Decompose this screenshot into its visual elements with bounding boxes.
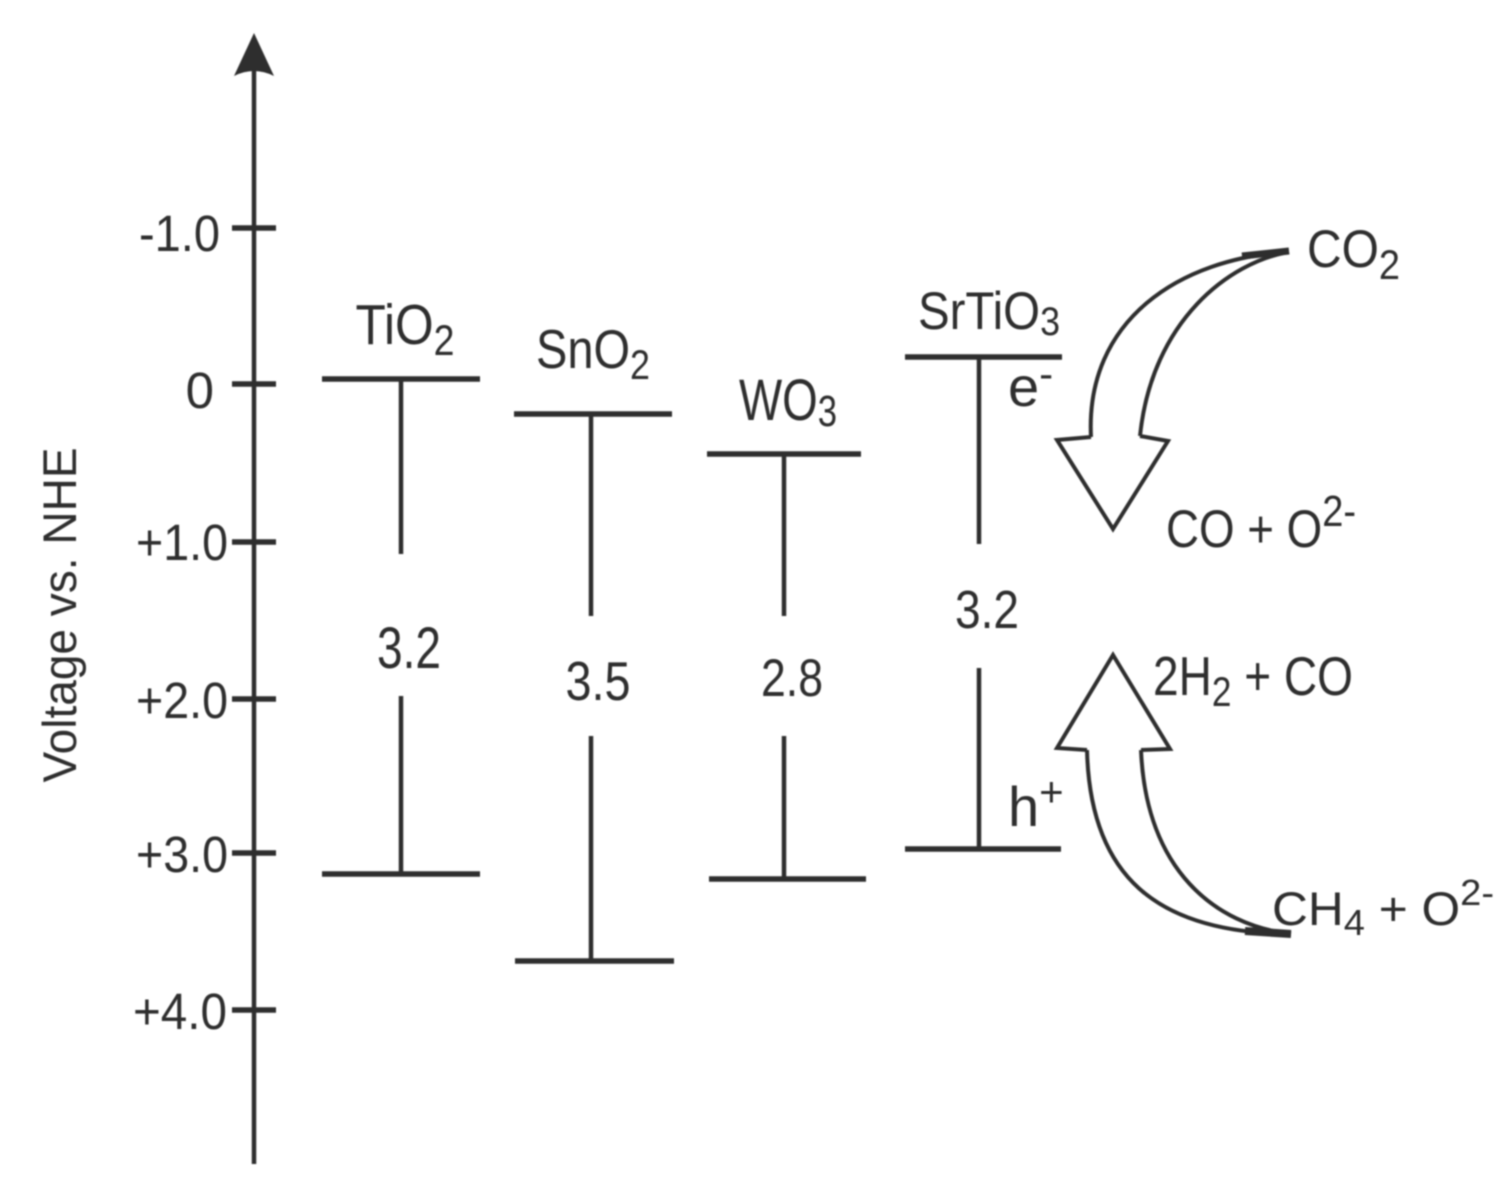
band WO3 stem upper — [782, 454, 787, 616]
svg-text:+1.0: +1.0 — [136, 514, 228, 571]
svg-text:WO3: WO3 — [739, 368, 837, 436]
band SnO2 stem upper — [589, 414, 594, 616]
svg-text:+3.0: +3.0 — [136, 826, 228, 883]
axis arrowhead — [234, 33, 274, 76]
svg-text:CO2: CO2 — [1307, 220, 1400, 288]
svg-text:+2.0: +2.0 — [136, 672, 228, 729]
band SnO2 conduction band bar — [514, 411, 672, 417]
svg-text:3.2: 3.2 — [377, 616, 441, 681]
svg-text:+4.0: +4.0 — [133, 983, 227, 1040]
reduction arrow CO2 to CO arrowhead — [1057, 436, 1168, 529]
svg-text:2H2 + CO: 2H2 + CO — [1153, 645, 1353, 715]
svg-text:CO + O2-: CO + O2- — [1166, 487, 1356, 559]
reduction arrow CO2 to CO outer curve — [1091, 252, 1289, 437]
svg-text:SrTiO3: SrTiO3 — [918, 282, 1060, 344]
svg-text:0: 0 — [186, 362, 214, 419]
band WO3 valence band bar — [709, 876, 866, 882]
tick +3.0 — [232, 850, 276, 856]
tick +4.0 — [232, 1007, 276, 1013]
reduction arrow CO2 to CO tail stroke — [1242, 251, 1289, 256]
band SrTiO3 conduction band bar — [905, 354, 1062, 360]
svg-text:-1.0: -1.0 — [139, 205, 220, 262]
svg-text:SnO2: SnO2 — [536, 318, 650, 388]
band TiO2 conduction band bar — [322, 376, 480, 382]
band SrTiO3 stem upper — [977, 357, 982, 544]
band SrTiO3 valence band bar — [905, 846, 1061, 852]
svg-text:CH4 + O2-: CH4 + O2- — [1272, 872, 1494, 943]
oxidation arrow CH4 to 2H2 arrowhead — [1057, 655, 1170, 750]
reduction arrow CO2 to CO inner curve — [1140, 252, 1289, 436]
band TiO2 stem lower — [399, 696, 404, 874]
band WO3 conduction band bar — [707, 451, 861, 457]
band TiO2 stem upper — [399, 379, 404, 554]
band SrTiO3 stem lower — [977, 668, 982, 849]
band TiO2 valence band bar — [322, 871, 480, 877]
oxidation arrow CH4 to 2H2 inner curve — [1141, 750, 1291, 934]
svg-text:3.5: 3.5 — [566, 650, 631, 712]
svg-text:h+: h+ — [1008, 768, 1064, 838]
tick +1.0 — [232, 539, 276, 545]
svg-text:2.8: 2.8 — [761, 649, 823, 708]
svg-text:3.2: 3.2 — [955, 580, 1019, 640]
tick -1.0 — [232, 225, 276, 231]
axis line (Voltage vs. NHE) — [252, 60, 257, 1164]
svg-text:Voltage vs. NHE: Voltage vs. NHE — [33, 448, 86, 783]
tick +2.0 — [232, 696, 276, 702]
oxidation arrow CH4 to 2H2 outer curve — [1087, 750, 1291, 934]
oxidation arrow CH4 to 2H2 tail stroke — [1245, 931, 1291, 934]
svg-text:e-: e- — [1008, 350, 1053, 418]
tick 0 — [232, 381, 276, 387]
band SnO2 valence band bar — [515, 958, 674, 964]
band WO3 stem lower — [782, 736, 787, 879]
svg-text:TiO2: TiO2 — [356, 293, 455, 365]
band SnO2 stem lower — [589, 736, 594, 961]
